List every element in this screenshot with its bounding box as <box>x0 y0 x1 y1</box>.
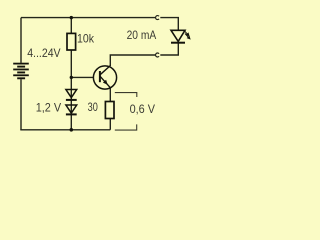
svg-text:1,2 V: 1,2 V <box>36 101 62 114</box>
resistor 30 <box>105 102 114 119</box>
svg-text:4...24V: 4...24V <box>27 47 61 60</box>
diode D2 <box>66 105 77 114</box>
svg-text:0,6 V: 0,6 V <box>130 103 156 116</box>
wire left branch (battery) <box>20 18 22 130</box>
wire top rail left segment <box>21 17 156 19</box>
measurement bracket 0,6V top <box>115 93 137 97</box>
wire emitter vertical to resistor 30 <box>109 88 111 130</box>
node junction dot top <box>70 16 73 19</box>
resistor 10k <box>67 33 76 50</box>
node junction dot base <box>70 76 73 79</box>
node junction dot bottom <box>70 128 74 132</box>
transistor NPN <box>93 66 116 90</box>
LED light arrows <box>184 30 190 39</box>
connector terminal bottom <box>156 53 160 57</box>
wire bottom rail <box>20 129 110 131</box>
wire top rail right segment to LED <box>160 18 178 31</box>
wire collector vertical and lower rail <box>110 43 178 67</box>
battery 4...24V <box>13 63 29 80</box>
svg-text:10k: 10k <box>77 33 94 46</box>
diode D1 <box>66 90 77 100</box>
svg-text:30: 30 <box>88 101 99 114</box>
wire middle branch resistor/diodes <box>70 18 72 130</box>
connector terminal top <box>156 16 160 20</box>
transistor emitter arrow <box>103 80 108 85</box>
svg-text:20 mA: 20 mA <box>127 29 157 42</box>
measurement bracket 0,6V bottom <box>115 124 137 130</box>
wire base <box>71 76 93 78</box>
LED <box>171 30 185 42</box>
